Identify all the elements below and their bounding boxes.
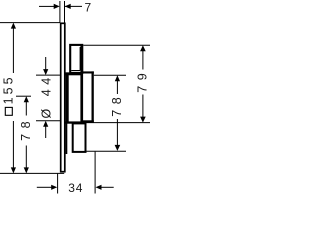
extension line knob front (for dim 34) bbox=[94, 152, 96, 194]
svg-text:7: 7 bbox=[84, 1, 91, 15]
extension line from valve box bottom (for right dim 78) bbox=[87, 150, 127, 152]
dimension square 155 (plate size) bbox=[2, 23, 16, 174]
dimension 78 left (knob axis to plate bottom) bbox=[19, 96, 33, 173]
extension line above plate right (for dim 7) bbox=[64, 1, 66, 23]
extension line wall level (for dim 34) bbox=[57, 174, 59, 194]
dimension 78 right bbox=[110, 75, 124, 151]
dimension 7 (plate thickness) bbox=[39, 1, 91, 15]
extension line from knob front top (for right dim 78) bbox=[94, 74, 126, 76]
extension line from button top (for dim 79) bbox=[83, 44, 150, 46]
dimension 79 right bbox=[136, 45, 150, 122]
lower valve box below knob bbox=[73, 123, 86, 151]
extension line above plate left (for dim 7) bbox=[59, 1, 61, 23]
svg-text:34: 34 bbox=[68, 181, 83, 195]
thermostat knob base column against plate bbox=[66, 72, 69, 154]
extension line at plate bottom (for dims 155/78/34) bbox=[0, 172, 64, 174]
wall plate (side view, square 155 escutcheon) bbox=[61, 23, 65, 171]
extension line knob top (for dim 44) bbox=[36, 74, 60, 76]
svg-text:155: 155 bbox=[2, 74, 16, 104]
svg-text:78: 78 bbox=[110, 92, 124, 117]
extension line at knob axis (for left dim 78) bbox=[16, 95, 31, 97]
svg-text:79: 79 bbox=[136, 68, 150, 93]
extension line from knob bottom (for dim 79) bbox=[84, 122, 150, 124]
extension line at plate top (for dim 155) bbox=[0, 22, 60, 24]
svg-text:78: 78 bbox=[19, 116, 33, 141]
thermostat knob back bottom edge bbox=[65, 121, 83, 123]
dimension diameter 44 (knob) bbox=[39, 57, 53, 138]
thermostat knob front face bbox=[92, 71, 94, 122]
thermostat knob front bottom edge bbox=[83, 120, 94, 122]
svg-text:Ø 44: Ø 44 bbox=[39, 73, 53, 118]
knob right continuous edge bbox=[80, 44, 83, 123]
extension line knob bottom (for dim 44) bbox=[36, 120, 60, 122]
dimension 34 bottom bbox=[37, 181, 114, 195]
thermostat knob back top edge bbox=[66, 72, 82, 75]
upper select button (side view) bbox=[70, 45, 82, 73]
thermostat knob front top edge bbox=[82, 71, 94, 73]
